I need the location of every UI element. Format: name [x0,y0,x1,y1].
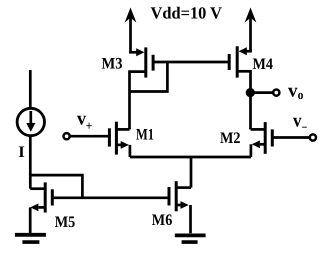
svg-text:Vdd=10 V: Vdd=10 V [151,4,223,23]
M5 drain lead [30,187,45,190]
M6 source corner down to ground [189,205,192,233]
M1 source lead with arrow [116,144,121,147]
svg-text:v: v [288,80,298,101]
M6 drain lead [176,186,191,189]
current source I [17,70,44,136]
ground middle [175,235,206,242]
M5 gate bar [51,189,54,205]
transistor M5 [30,182,52,233]
M6 source lead with arrow [176,204,181,207]
M1 channel bar [115,122,118,155]
svg-text:M3: M3 [102,55,123,72]
wire gate M3 to gate M4 [153,61,229,64]
M4 channel bar [236,46,239,77]
svg-text:+: + [86,118,93,133]
svg-text:M2: M2 [220,130,241,147]
terminal v+ (open circle) [64,133,70,139]
M1 drain lead [116,128,129,131]
M6 gate bar [168,187,171,206]
wire M4 drain down through output node to M2 drain [249,70,252,129]
M6 channel bar [175,181,178,211]
M6 drain up to common rail [190,157,193,188]
transistor M3 [129,47,153,77]
wire output node to vo terminal [251,91,273,94]
M5 channel bar [44,182,47,212]
svg-text:−: − [302,120,308,135]
wire current source to M5 drain [29,136,32,189]
transistor M4 [229,46,252,77]
wire M2 gate to v- terminal [272,136,309,139]
transistor M2 [251,122,273,157]
transistor M1 [109,122,129,157]
M4 drain lead [237,70,250,73]
wire common source rail M1 to M2 [130,156,251,159]
M4 gate bar [228,54,231,70]
wire v+ terminal to M1 gate [70,135,109,138]
wire M3 diode connection (gate to drain tap) [130,62,168,92]
M3 channel bar [144,47,147,77]
svg-text:I: I [18,144,25,161]
M4 source lead with arrow [246,50,252,53]
svg-text:o: o [298,87,304,102]
label v- [293,110,307,134]
ground left [15,235,46,242]
svg-text:M4: M4 [253,56,274,73]
power Vdd arrow left [125,8,137,54]
terminal v- (open circle) [310,134,316,140]
terminal vo (open circle) [273,90,279,96]
M1 source corner down to rail [129,145,132,157]
M5 source down to ground [29,207,32,233]
current source circle [17,108,44,135]
svg-text:M5: M5 [55,214,75,231]
current source arrow [29,111,32,125]
M3 gate bar [152,55,155,71]
M2 channel bar [264,122,267,154]
node output junction dot [246,88,255,97]
wire M5 diode connection (drain wire to gate wire) [30,175,82,198]
current source top stub [29,70,32,109]
power Vdd arrow right [245,8,257,53]
M2 source lead with arrow [260,143,265,146]
M5 source lead with arrow [39,206,46,209]
M2 source corner down to rail [250,144,253,157]
wire M3 drain down to M1 drain [128,70,131,129]
label vo [288,80,303,102]
svg-text:M1: M1 [136,126,154,143]
M3 drain lead [130,70,146,73]
M3 source lead with arrow [129,51,137,54]
M1 gate bar [108,128,111,146]
wire M5 gate to M6 gate [52,196,169,199]
M2 gate bar [271,129,274,146]
svg-text:M6: M6 [152,212,173,229]
transistor M6 [169,157,191,233]
M2 drain lead [251,128,266,131]
label v+ [77,109,92,133]
